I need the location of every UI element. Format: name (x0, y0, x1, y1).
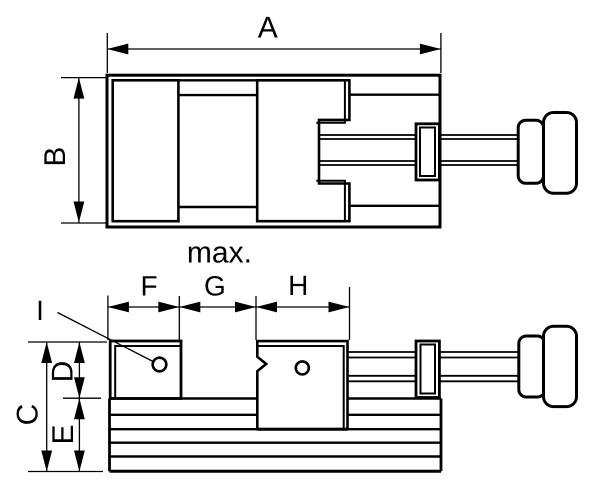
svg-text:E: E (47, 424, 80, 444)
fixed jaw plate inner contour (316, 80, 345, 221)
extension line G/H (255, 296, 257, 340)
arrow C top (41, 342, 52, 363)
svg-text:D: D (46, 361, 79, 383)
bushing inner (top view) (420, 128, 435, 177)
arrow G right (235, 302, 256, 313)
leader line I to hole (58, 313, 154, 362)
movable jaw block (bottom view) with notch (257, 341, 347, 429)
svg-text:G: G (204, 270, 226, 301)
screw shaft lines (bottom view, bushing to knob) (439, 352, 518, 381)
base top line (left part) (110, 397, 258, 400)
extension line bottom of B (61, 222, 106, 224)
opening top rail line (178, 94, 257, 96)
base bottom line (110, 470, 442, 473)
svg-text:B: B (39, 147, 72, 167)
dimension line F G H (108, 306, 350, 308)
arrow F right (158, 302, 179, 313)
opening top edge line (178, 79, 257, 81)
arrow H right (329, 302, 350, 313)
screw shaft lines (bottom view, jaw to bushing) (348, 352, 417, 381)
base right edge (440, 399, 443, 472)
arrow B top (74, 78, 85, 99)
extension line top of B (61, 77, 106, 79)
hole in movable jaw (296, 361, 309, 374)
extension line middle (D/E) (63, 397, 101, 399)
base groove line 1 (left part) (110, 414, 258, 416)
label B (39, 147, 72, 167)
svg-text:F: F (140, 271, 157, 302)
knob small section (bottom view) (519, 336, 545, 397)
screw shaft lines (top view, body to knob) (439, 135, 518, 165)
svg-text:I: I (36, 295, 44, 326)
arrow F left (108, 302, 129, 313)
dimension line A (107, 48, 441, 50)
svg-text:max.: max. (187, 236, 252, 269)
fixed jaw E-shaped block (top view) (257, 80, 349, 221)
arrow E bottom (74, 451, 85, 472)
dimension line B (78, 78, 80, 223)
svg-text:A: A (258, 11, 278, 44)
movable jaw inner double lines (257, 346, 343, 429)
base top line (right part) (347, 397, 441, 400)
body outline (top view) (107, 75, 440, 227)
arrow G left (179, 302, 200, 313)
arrow C bottom (41, 451, 52, 472)
arrow A left (107, 44, 128, 55)
label C (12, 404, 45, 426)
arrow D top (74, 342, 85, 363)
left jaw inner double lines (115, 346, 180, 398)
arrow E top (74, 398, 85, 419)
arrow H left (256, 302, 277, 313)
hole I in left jaw (153, 358, 167, 372)
arrow B bottom (74, 202, 85, 223)
extension line left of A (106, 33, 108, 73)
label D (46, 361, 79, 383)
base groove line 2 (110, 428, 442, 430)
screw shaft lines (top view, inside body) (319, 135, 416, 165)
knob large section (bottom view) (544, 326, 577, 406)
extension line top (C/D) (28, 341, 107, 343)
bushing inner (bottom view) (421, 345, 436, 394)
arrow D bottom (74, 377, 85, 398)
extension line F left (107, 296, 109, 341)
extension line F/G (178, 296, 180, 340)
base groove line 4 (110, 455, 442, 457)
svg-text:H: H (288, 270, 308, 301)
extension line right of A (440, 33, 442, 73)
bushing outer (top view) (416, 124, 439, 180)
extension line H right (349, 287, 351, 340)
arrow A right (420, 44, 441, 55)
label E (47, 424, 80, 444)
movable jaw bottom edge (257, 428, 347, 431)
right section bottom rail line (349, 205, 438, 207)
dimension line D (78, 342, 80, 398)
dimension line C (46, 342, 48, 472)
bushing outer (bottom view) (416, 341, 439, 398)
dimension line E (78, 398, 80, 471)
knob small section (top view) (518, 120, 543, 183)
right section top rail line (349, 93, 438, 95)
extension line bottom (C/E) (28, 471, 103, 473)
opening bottom rail line (178, 206, 257, 208)
base left edge (108, 399, 111, 472)
knob large section (top view) (544, 113, 577, 194)
base groove line 3 (110, 442, 442, 444)
left jaw block (bottom view) (110, 341, 181, 399)
base groove line 1 (right part) (347, 414, 441, 416)
left movable jaw block (top view) (113, 80, 179, 221)
svg-text:C: C (12, 404, 45, 426)
